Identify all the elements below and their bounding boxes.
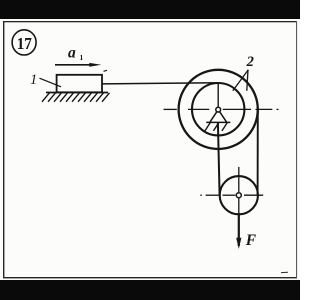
ground hatching bbox=[42, 93, 110, 102]
svg-text:F: F bbox=[245, 232, 257, 249]
pulley 2 vertical centerline bbox=[217, 83, 219, 107]
support base line bbox=[206, 121, 230, 123]
svg-text:2: 2 bbox=[246, 54, 254, 70]
movable pulley horizontal centerline bbox=[200, 194, 263, 196]
svg-text:17: 17 bbox=[17, 34, 33, 53]
force F arrow bbox=[236, 213, 241, 249]
svg-text:1: 1 bbox=[30, 72, 37, 88]
svg-text:a: a bbox=[68, 44, 76, 61]
movable pulley bbox=[220, 176, 258, 214]
acceleration arrow bbox=[55, 63, 107, 71]
pin circle of pulley 2 axle bbox=[216, 107, 221, 112]
fixed support triangle bbox=[210, 112, 227, 122]
wire: left cord from axle down to movable pulley bbox=[218, 122, 220, 195]
svg-text:1: 1 bbox=[80, 53, 84, 62]
wire: right cord from outer rim down to movable pulley bbox=[257, 109, 259, 195]
ground line bbox=[46, 92, 108, 94]
support hatching bbox=[205, 123, 227, 131]
wire: rope from block to pulley 2 bbox=[102, 83, 219, 84]
leader lines for label 2 bbox=[233, 70, 249, 91]
label a1 (acceleration) bbox=[68, 44, 84, 62]
pulley 2 inner rim bbox=[192, 83, 244, 135]
pulley 2 horizontal centerline bbox=[164, 108, 279, 110]
badge circle 17 bbox=[12, 30, 36, 55]
movable pulley axle pin bbox=[236, 193, 241, 198]
movable pulley vertical centerline bbox=[238, 167, 240, 214]
block 1 (body on table) bbox=[57, 75, 102, 93]
pulley 2 outer rim bbox=[179, 70, 258, 149]
leader line for label 1 bbox=[40, 78, 62, 87]
